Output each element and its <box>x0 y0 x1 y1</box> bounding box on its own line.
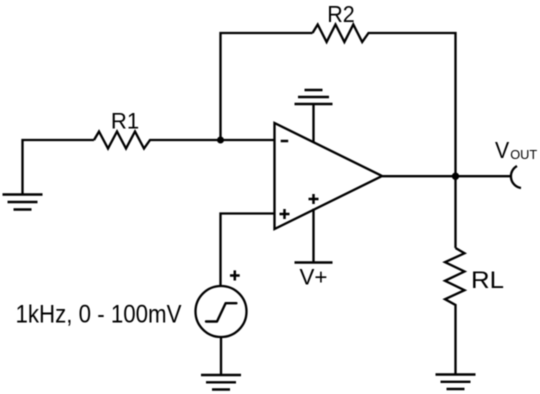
svg-text:1kHz, 0 - 100mV: 1kHz, 0 - 100mV <box>16 300 182 328</box>
svg-text:OUT: OUT <box>510 147 537 162</box>
svg-text:R1: R1 <box>111 109 139 134</box>
svg-text:RL: RL <box>471 267 504 294</box>
svg-text:R2: R2 <box>327 1 355 27</box>
svg-text:V: V <box>495 137 510 163</box>
svg-text:V+: V+ <box>300 265 328 290</box>
